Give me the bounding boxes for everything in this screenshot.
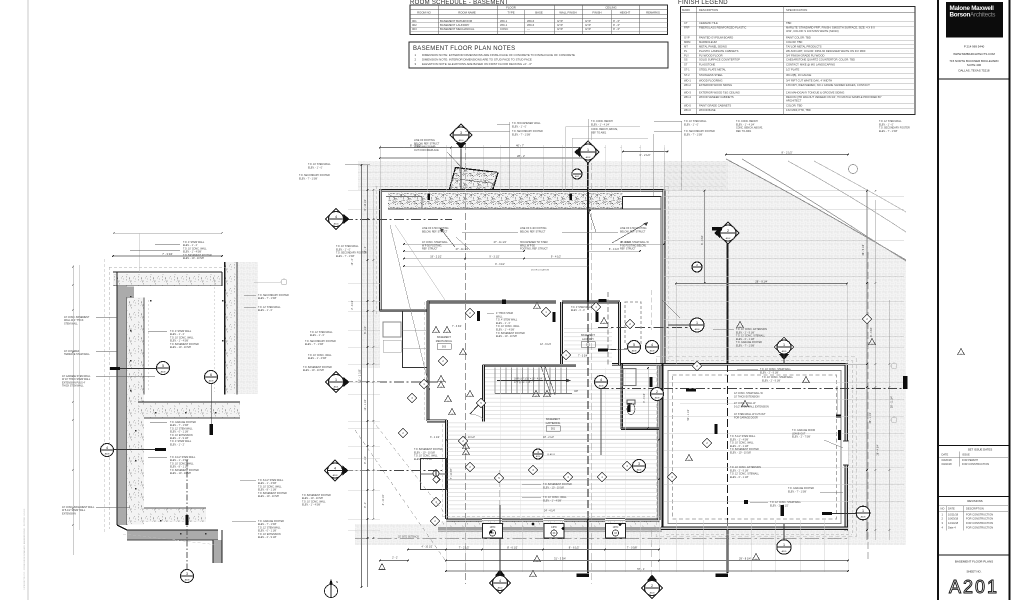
faint horizontal extension lines left xyxy=(348,189,380,191)
small circle A503 top xyxy=(572,169,582,179)
svg-text:FOR GARAGE DOOR: FOR GARAGE DOOR xyxy=(734,416,758,419)
svg-text:A408: A408 xyxy=(861,516,867,519)
svg-text:20' SITE SETBACK: 20' SITE SETBACK xyxy=(398,535,419,538)
svg-text:P 214 969 5440: P 214 969 5440 xyxy=(964,45,985,49)
svg-text:4: 4 xyxy=(334,466,336,470)
svg-text:WWW.MMBARCHITECTS.COM: WWW.MMBARCHITECTS.COM xyxy=(953,52,995,56)
svg-text:7' - 0 5/8': 7' - 0 5/8' xyxy=(627,545,638,549)
svg-text:FOR CONSTRUCTION: FOR CONSTRUCTION xyxy=(966,512,993,516)
detail top dim line y=233 xyxy=(114,232,222,234)
svg-text:ARCHITECT: ARCHITECT xyxy=(786,99,802,103)
svg-text:BELOW, REF. STRUCT: BELOW, REF. STRUCT xyxy=(520,230,546,233)
detail left wall stipple strip xyxy=(127,298,144,525)
road edge line 1 xyxy=(726,159,906,260)
set issue dates divider xyxy=(938,445,1010,447)
svg-text:002: 002 xyxy=(586,344,591,347)
svg-text:DESCRIPTION: DESCRIPTION xyxy=(966,507,984,511)
svg-text:2: 2 xyxy=(656,390,658,394)
svg-text:A406: A406 xyxy=(637,468,643,471)
diagonal leader in left wing xyxy=(390,225,430,390)
bubble 1-A505 bottom garage xyxy=(777,540,791,554)
svg-text:CT: CT xyxy=(684,21,688,25)
svg-text:FOR CONSTRUCTION: FOR CONSTRUCTION xyxy=(966,521,993,525)
svg-text:9' - 2': 9' - 2' xyxy=(364,502,367,508)
svg-text:40' - 7': 40' - 7' xyxy=(516,143,524,147)
svg-text:ST: ST xyxy=(684,62,688,66)
garage door leave-out opening xyxy=(843,440,849,442)
svg-text:8' - 4 1/4': 8' - 4 1/4' xyxy=(609,248,620,251)
window well bump xyxy=(421,459,447,490)
finish legend column lines xyxy=(696,7,698,115)
grid dashed line x=465 xyxy=(465,133,467,584)
terrace band left step outline xyxy=(386,196,422,198)
svg-text:3: 3 xyxy=(186,572,188,576)
svg-text:3: 3 xyxy=(460,131,462,135)
svg-text:A502: A502 xyxy=(498,586,504,589)
svg-text:28' - 4 3/4': 28' - 4 3/4' xyxy=(877,444,880,456)
svg-text:8' - 1/2': 8' - 1/2' xyxy=(364,326,367,334)
svg-text:C:\PROJECTS\1715 - STONE RIDGE: C:\PROJECTS\1715 - STONE RIDGE ROAD\A201… xyxy=(23,508,26,590)
svg-text:5: 5 xyxy=(162,364,164,368)
detail gray corner leg xyxy=(117,287,134,298)
fireplace bump-out xyxy=(449,168,498,191)
svg-text:8' - 6 1/2': 8' - 6 1/2' xyxy=(507,545,518,549)
left wing inner marks xyxy=(403,329,428,331)
top dimension row 2 xyxy=(380,157,588,159)
faint vertical lines inside gathering room xyxy=(499,368,501,519)
svg-text:1: 1 xyxy=(335,378,337,382)
garage right wall xyxy=(845,363,847,441)
vertical dim line x=704.5 xyxy=(704,190,706,283)
leader arrows terrace xyxy=(612,222,648,243)
terrace interior dim row 2 xyxy=(404,250,524,252)
garage outer dashed footing rect xyxy=(656,357,856,537)
svg-text:BASEMENT: BASEMENT xyxy=(546,418,560,421)
svg-text:6' - 3 1/4': 6' - 3 1/4' xyxy=(644,393,646,403)
svg-text:STEEL PLATE METAL: STEEL PLATE METAL xyxy=(699,68,726,72)
svg-text:ELEV. - 10' - 10 5/8': ELEV. - 10' - 10 5/8' xyxy=(303,369,325,372)
svg-text:MARMOLEUM: MARMOLEUM xyxy=(699,40,718,44)
svg-text:1: 1 xyxy=(783,543,785,547)
svg-text:8' - 2 1/2': 8' - 2 1/2' xyxy=(782,150,793,154)
svg-text:A408: A408 xyxy=(599,384,605,387)
svg-text:ELEV. - 10' - 10 5/8': ELEV. - 10' - 10 5/8' xyxy=(170,346,192,349)
svg-text:DOOR LOCATION: DOOR LOCATION xyxy=(531,269,550,272)
svg-text:A408: A408 xyxy=(161,370,167,373)
svg-text:001: 001 xyxy=(551,428,556,431)
svg-text:4: 4 xyxy=(106,446,108,450)
svg-text:9' - 4 1/2': 9' - 4 1/2' xyxy=(551,255,562,258)
covered terrace weave hatch xyxy=(237,262,258,394)
detail dimension ticks top xyxy=(113,255,222,257)
detail middle horizontal band stipple xyxy=(138,402,240,418)
svg-text:EXTENSION: EXTENSION xyxy=(62,512,76,515)
terrace interior dim row 3 xyxy=(404,243,588,245)
garage dimension 28-9 1/4 xyxy=(676,283,847,285)
issue table column line xyxy=(959,452,961,467)
svg-text:ELEV. - 2' - 9 1/8': ELEV. - 2' - 9 1/8' xyxy=(762,379,781,382)
garage left wall xyxy=(662,364,664,530)
svg-text:52' - 1 1/2': 52' - 1 1/2' xyxy=(687,409,690,421)
svg-text:5-1/2' STEM WALL EXTENSION: 5-1/2' STEM WALL EXTENSION xyxy=(734,405,769,408)
outer wall: left wing bottom xyxy=(379,310,427,312)
svg-text:3: 3 xyxy=(638,462,640,466)
svg-text:ELEV. - 7' - 1 5/8': ELEV. - 7' - 1 5/8' xyxy=(684,133,703,136)
terrace stipple band lower boundary xyxy=(388,208,661,210)
svg-text:ELEV. - 1' - 4 5/8': ELEV. - 1' - 4 5/8' xyxy=(308,357,327,360)
svg-text:WD-4: WD-4 xyxy=(684,95,691,99)
svg-text:10/21/18: 10/21/18 xyxy=(948,512,959,516)
bubble 1-A408 garage lower right xyxy=(856,506,870,520)
svg-text:7' - 3 3/4': 7' - 3 3/4' xyxy=(452,325,462,328)
title block left border xyxy=(937,0,939,600)
detail tiny marks xyxy=(130,296,132,298)
svg-text:003: 003 xyxy=(412,27,417,31)
svg-text:TAYLOR METAL PRODUCTS: TAYLOR METAL PRODUCTS xyxy=(786,44,822,48)
svg-text:9' - 3 1/2': 9' - 3 1/2' xyxy=(495,263,505,266)
svg-text:PLYWOOD FLOOR: PLYWOOD FLOOR xyxy=(699,53,723,57)
svg-text:4' - 10 1/2': 4' - 10 1/2' xyxy=(383,494,385,505)
svg-text:ELEV. - 10' - 10 5/8': ELEV. - 10' - 10 5/8' xyxy=(730,452,752,455)
svg-text:A505: A505 xyxy=(782,550,788,553)
svg-text:31' - 3 3/4': 31' - 3 3/4' xyxy=(554,556,566,560)
svg-text:A504: A504 xyxy=(334,222,340,225)
svg-text:ELEV. - 1' - 0': ELEV. - 1' - 0' xyxy=(308,166,323,169)
room schedule header lines xyxy=(410,9,668,11)
svg-text:9' - 1/2': 9' - 1/2' xyxy=(364,456,367,464)
bathroom bottom wall xyxy=(621,428,659,430)
svg-text:N: N xyxy=(336,580,338,584)
laundry floor hatch xyxy=(564,326,612,364)
svg-text:FOOTING, REF. STRUCT: FOOTING, REF. STRUCT xyxy=(520,248,548,251)
svg-text:ELEV. - 1' - 4 5/8': ELEV. - 1' - 4 5/8' xyxy=(414,458,433,461)
svg-text:12' - 1 1/2': 12' - 1 1/2' xyxy=(364,399,367,411)
svg-text:5: 5 xyxy=(633,343,635,347)
garage bottom wall black bar xyxy=(781,505,785,516)
svg-text:A503: A503 xyxy=(333,474,339,477)
bottom exterior stipple band xyxy=(441,522,659,527)
svg-text:BorsonArchitects: BorsonArchitects xyxy=(950,11,996,18)
stair center handrail with arrow xyxy=(497,380,566,382)
dash-dot datum y=219.5 xyxy=(343,219,452,221)
keynote diamonds xyxy=(465,308,474,317)
svg-text:PAINT COLOR: TBD: PAINT COLOR: TBD xyxy=(786,36,811,40)
svg-text:CERAMIC TILE: CERAMIC TILE xyxy=(699,21,718,25)
svg-text:BASEMENT FLOOR PLANS: BASEMENT FLOOR PLANS xyxy=(955,560,993,564)
svg-text:REF. STRUCT: REF. STRUCT xyxy=(422,248,438,251)
svg-text:WD-3: WD-3 xyxy=(684,90,691,94)
rooms top wall xyxy=(427,301,556,303)
outer wall: left xyxy=(380,189,382,311)
svg-text:A502: A502 xyxy=(726,237,732,240)
svg-text:NO: NO xyxy=(941,507,945,511)
svg-text:2' - 4 1/2': 2' - 4 1/2' xyxy=(352,300,354,310)
svg-text:GYP: GYP xyxy=(557,27,563,31)
svg-text:10' THICK EXTENSION: 10' THICK EXTENSION xyxy=(734,395,760,398)
svg-text:A408: A408 xyxy=(650,349,656,352)
svg-text:WOOD VENEER CABINETS: WOOD VENEER CABINETS xyxy=(699,95,734,99)
leader lines center terrace xyxy=(462,231,518,233)
svg-text:19' - 2 1/2': 19' - 2 1/2' xyxy=(430,255,442,258)
svg-text:TERRACE STEM WALL: TERRACE STEM WALL xyxy=(64,353,90,356)
right dimension string lines xyxy=(866,190,868,540)
svg-text:DATE: DATE xyxy=(948,507,955,511)
svg-text:FIBERGLASS REINFORCED PLASTIC: FIBERGLASS REINFORCED PLASTIC xyxy=(699,26,746,30)
dash-dot datum y=470.5 xyxy=(343,470,446,472)
sheet title divider xyxy=(938,554,1010,556)
top wall extension line to right dim string xyxy=(664,190,867,192)
terrace interior dimension row xyxy=(404,258,465,260)
svg-text:REF. TO A801: REF. TO A801 xyxy=(591,131,607,134)
svg-text:SOLID SURFACE COUNTERTOP: SOLID SURFACE COUNTERTOP xyxy=(699,58,740,62)
garage bottom wall xyxy=(661,527,848,529)
garage interior white xyxy=(664,366,846,528)
svg-text:RECON QTR WALNUT VENEER ON 3/4: RECON QTR WALNUT VENEER ON 3/4', TO MATC… xyxy=(786,95,882,99)
svg-text:ROOM NAME: ROOM NAME xyxy=(458,10,476,14)
svg-text:FINISH LEGEND: FINISH LEGEND xyxy=(678,0,728,6)
svg-text:ELEV. - 1' - 0': ELEV. - 1' - 0' xyxy=(571,310,585,312)
mech room door swing xyxy=(470,400,483,414)
bubbles 5/4 A408 near laundry xyxy=(628,341,641,354)
svg-text:MRM: MRM xyxy=(684,40,691,44)
diamond bubble 4-A503 left xyxy=(325,460,346,481)
svg-text:WD-1: WD-1 xyxy=(684,78,691,82)
mechanical room left wall xyxy=(427,301,429,421)
bubble 1-A503 right xyxy=(690,318,704,332)
mechanical room bottom wall xyxy=(427,420,447,422)
svg-text:SHEET NO.: SHEET NO. xyxy=(966,570,981,574)
svg-text:PLY: PLY xyxy=(684,53,689,57)
detail bubble 3-A408 bottom xyxy=(181,570,194,583)
footing dashed offsets around building xyxy=(375,185,668,187)
north arrow bottom left xyxy=(325,585,338,598)
svg-text:9' - 10 1/2': 9' - 10 1/2' xyxy=(364,199,367,211)
svg-text:A502: A502 xyxy=(586,156,592,159)
svg-text:4' - 10 1/2': 4' - 10 1/2' xyxy=(421,546,433,549)
revisions divider xyxy=(938,496,1010,498)
svg-text:1/2' PLATE: 1/2' PLATE xyxy=(786,68,800,72)
bathroom counter rect xyxy=(623,369,636,386)
svg-text:BASE: BASE xyxy=(535,10,543,14)
svg-text:SUITE 400: SUITE 400 xyxy=(967,63,982,67)
svg-text:STAINLESS STEEL: STAINLESS STEEL xyxy=(699,73,723,77)
svg-text:PAINT GRADE CABINETS: PAINT GRADE CABINETS xyxy=(699,104,731,108)
svg-text:16' - 2': 16' - 2' xyxy=(352,258,354,265)
right dim black bar with dash-dot xyxy=(903,376,908,389)
window well small rects on left wing wall xyxy=(383,322,401,337)
grid dashed x=500 lower xyxy=(499,470,501,576)
svg-text:ELEV. - 10' - 10 5/8': ELEV. - 10' - 10 5/8' xyxy=(170,472,192,475)
svg-text:DATE: DATE xyxy=(942,453,949,457)
svg-text:FOR CONSTRUCTION: FOR CONSTRUCTION xyxy=(966,517,993,521)
svg-text:5' - 10 3/8': 5' - 10 3/8' xyxy=(451,468,453,479)
detail bottom step: horizontal gray band xyxy=(127,530,218,540)
svg-text:FOR CONSTRUCTION: FOR CONSTRUCTION xyxy=(966,525,993,529)
svg-text:6: 6 xyxy=(210,373,212,377)
top dim row intermediate ticks xyxy=(403,147,404,148)
faint horizontal lines across site top xyxy=(358,164,726,166)
detail inner stipple near bottom step xyxy=(144,508,206,522)
svg-text:METAL PANEL SIDING: METAL PANEL SIDING xyxy=(699,44,727,48)
svg-text:1: 1 xyxy=(862,509,864,513)
outer wall: right (terrace) xyxy=(663,189,665,365)
road edge line 2 xyxy=(742,159,906,261)
far-left dimension strings xyxy=(72,265,74,555)
svg-text:FLOOR: FLOOR xyxy=(506,6,516,10)
svg-text:ELEV. - 7' - 1 5/8': ELEV. - 7' - 1 5/8' xyxy=(305,343,324,346)
svg-text:REVISIONS: REVISIONS xyxy=(967,499,982,503)
svg-text:WD-5: WD-5 xyxy=(684,104,691,108)
svg-text:ELEV. - 2' - 7 5/8': ELEV. - 2' - 7 5/8' xyxy=(792,436,811,439)
site ground weave: right region xyxy=(664,161,906,545)
title block divider under address xyxy=(938,78,1010,80)
bubble 1-A505 garage top xyxy=(774,337,793,356)
svg-text:ELEV. - 10' - 10 5/8': ELEV. - 10' - 10 5/8' xyxy=(543,486,565,489)
stairs top wall xyxy=(483,365,577,367)
svg-text:WILSON ART, COLOR: D354-60 DES: WILSON ART, COLOR: D354-60 DESIGNER WHIT… xyxy=(786,49,866,53)
svg-text:DESCRIPTION: DESCRIPTION xyxy=(699,8,718,12)
window well sleeve symbol xyxy=(433,471,439,477)
svg-text:57' - 1': 57' - 1' xyxy=(637,567,645,571)
svg-text:1: 1 xyxy=(587,148,589,152)
laundry right wall xyxy=(619,302,621,365)
revisions table column lines xyxy=(946,506,948,531)
svg-text:4: 4 xyxy=(499,579,501,583)
svg-text:A504: A504 xyxy=(459,139,465,142)
svg-text:304 2(B), 16 GAUGE: 304 2(B), 16 GAUGE xyxy=(786,73,811,77)
bubble 4-A502 bottom section xyxy=(490,573,511,594)
svg-text:3/32', COLOR: S 100 S/S/S WHIT: 3/32', COLOR: S 100 S/S/S WHITE (S2010) xyxy=(786,29,839,33)
svg-text:MARLITE 'STANDARD FRP', FINISH: MARLITE 'STANDARD FRP', FINISH: SMOOTH S… xyxy=(786,26,875,30)
architect logo black box xyxy=(946,2,1003,38)
svg-text:BASEMENT: BASEMENT xyxy=(581,334,595,337)
svg-text:DALLAS, TEXAS 75218: DALLAS, TEXAS 75218 xyxy=(959,69,990,73)
svg-text:9' - 3 1/2': 9' - 3 1/2' xyxy=(489,255,500,258)
outer wall: top xyxy=(380,190,664,192)
svg-text:ISSUE: ISSUE xyxy=(962,453,970,457)
leader verticals from top-right text clusters xyxy=(681,121,683,190)
svg-text:ELEV. - 7' - 1 5/8': ELEV. - 7' - 1 5/8' xyxy=(299,177,318,180)
svg-text:28' - 11 3/4': 28' - 11 3/4' xyxy=(891,395,894,408)
leader fireplace xyxy=(447,152,462,168)
svg-text:ELEV. - 1' - 2': ELEV. - 1' - 2' xyxy=(170,443,185,446)
svg-text:A201: A201 xyxy=(949,577,999,597)
site ground weave: left strip along building xyxy=(362,190,380,368)
svg-text:REMARKS: REMARKS xyxy=(646,10,660,14)
svg-text:4: 4 xyxy=(335,215,337,219)
bubble 2 small right of laundry xyxy=(692,262,702,272)
wall between mech and stairs xyxy=(482,365,484,422)
detail leader lines right xyxy=(155,243,180,245)
svg-text:12/14/18: 12/14/18 xyxy=(948,521,959,525)
svg-text:27' - 11 1/4': 27' - 11 1/4' xyxy=(494,241,507,244)
lower left wall xyxy=(445,420,447,519)
bottom wall with door openings xyxy=(446,519,482,521)
small black diamond dots on bottom wall xyxy=(531,522,534,525)
detail small level circle B xyxy=(281,279,287,285)
svg-text:@ A124: @ A124 xyxy=(547,453,556,456)
svg-text:A408: A408 xyxy=(209,379,215,382)
stair treads xyxy=(494,368,496,394)
svg-text:HEIGHT: HEIGHT xyxy=(620,10,631,14)
svg-text:1X6 DRY, WEATHERED, NO.1 GRADE: 1X6 DRY, WEATHERED, NO.1 GRADE SANDED ED… xyxy=(786,83,870,87)
svg-text:REF. TO A801: REF. TO A801 xyxy=(736,130,752,133)
grid dashed x=608 laundry xyxy=(607,292,609,365)
terrace concrete stipple band xyxy=(388,192,623,209)
svg-text:18' - 2 1/2': 18' - 2 1/2' xyxy=(543,436,555,439)
svg-text:ELEV. - 1' - 4 5/8': ELEV. - 1' - 4 5/8' xyxy=(543,499,562,502)
svg-text:ELEV. - 10' - 10 5/8': ELEV. - 10' - 10 5/8' xyxy=(496,335,518,338)
grid dashed x=868 right xyxy=(867,252,869,560)
black wall bars xyxy=(477,311,480,321)
svg-text:ELEV. - 7' - 1 5/8': ELEV. - 7' - 1 5/8' xyxy=(788,490,807,493)
terrace right wall inner face xyxy=(660,197,662,365)
detail right wall stipple strip xyxy=(225,262,237,394)
finish legend rows xyxy=(681,20,916,22)
section line B bottom flag xyxy=(716,574,729,577)
detail leader lines left xyxy=(96,316,117,318)
bathroom left wall xyxy=(621,364,623,429)
bubble 1-A502 top section marker xyxy=(577,141,599,163)
svg-text:A503: A503 xyxy=(695,328,701,331)
revisions header row xyxy=(939,505,1008,507)
svg-text:1X2 MDF, PTD, TBD: 1X2 MDF, PTD, TBD xyxy=(786,108,811,112)
laundry right side dims xyxy=(647,368,649,428)
svg-text:ELEV. - 7' - 1 5/8': ELEV. - 7' - 1 5/8' xyxy=(336,255,355,258)
svg-text:CEILING: CEILING xyxy=(605,6,616,10)
detail bottom step: vertical gray band going down xyxy=(213,540,222,563)
bathroom vanity dashed outline xyxy=(625,302,641,344)
detail bubble 4-A408 left xyxy=(101,444,114,457)
svg-text:MARK: MARK xyxy=(682,8,690,12)
svg-text:12' - 9 1/4': 12' - 9 1/4' xyxy=(540,343,552,346)
svg-text:04/02/18: 04/02/18 xyxy=(942,462,953,466)
svg-text:18 R @ 7 1/32' = 10' - 4 1/4': 18 R @ 7 1/32' = 10' - 4 1/4' xyxy=(514,379,543,381)
bubble 4-A408 mid plan xyxy=(595,376,608,389)
svg-text:8' - 6 1/2': 8' - 6 1/2' xyxy=(569,545,580,549)
stair lower edge xyxy=(495,393,572,395)
garage top wall xyxy=(612,364,848,366)
svg-text:10/03/18: 10/03/18 xyxy=(948,517,959,521)
left detail group xyxy=(62,232,336,582)
svg-text:3' - 1 1/2': 3' - 1 1/2' xyxy=(430,436,440,439)
right dim line x=889.5 xyxy=(889,300,891,540)
bubble 2-A502 right section marker xyxy=(717,222,739,244)
svg-text:ELEV. - 7' - 1 5/8': ELEV. - 7' - 1 5/8' xyxy=(879,130,898,133)
svg-text:CAESARSTONE QUARTZ COUNTERTOP,: CAESARSTONE QUARTZ COUNTERTOP, COLOR: TB… xyxy=(786,58,855,62)
title block right border xyxy=(1009,0,1011,600)
house right wall lower xyxy=(658,364,660,520)
detail top wall band stipple xyxy=(113,274,222,286)
svg-text:39' - 1 1/2': 39' - 1 1/2' xyxy=(869,412,872,424)
svg-text:4: 4 xyxy=(600,378,602,382)
svg-text:ELEV. - 1' - 0': ELEV. - 1' - 0' xyxy=(512,125,527,128)
building footprint white mask xyxy=(380,190,848,530)
svg-text:29' - 8 1/4': 29' - 8 1/4' xyxy=(739,556,751,560)
svg-text:ELEV. - 7' - 1 5/8': ELEV. - 7' - 1 5/8' xyxy=(736,345,755,348)
basement floor plan notes box xyxy=(409,42,668,68)
svg-text:EXTERIOR WOOD T&G CEILING: EXTERIOR WOOD T&G CEILING xyxy=(699,90,740,94)
svg-text:13HC: 13HC xyxy=(551,527,557,529)
site setback dash-dot line xyxy=(355,538,848,540)
svg-text:DIMENSION NOTE: INTERIOR DIMEN: DIMENSION NOTE: INTERIOR DIMENSIONS ARE … xyxy=(422,58,532,62)
svg-text:7' - 3 3/4': 7' - 3 3/4' xyxy=(578,355,588,358)
garage inner wall faces xyxy=(668,371,841,524)
svg-text:3/4' FINISH GRADE PLYWOOD: 3/4' FINISH GRADE PLYWOOD xyxy=(786,53,824,57)
bubble 2-A408 right wing xyxy=(651,388,664,401)
door location strings lower terrace xyxy=(404,265,588,267)
svg-text:DIMENSION NOTE: EXTERIOR DIMEN: DIMENSION NOTE: EXTERIOR DIMENSIONS ARE … xyxy=(422,53,575,57)
